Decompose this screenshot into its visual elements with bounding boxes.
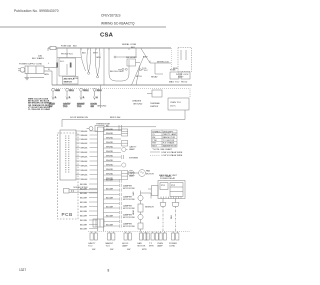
svg-text:BU-WH: BU-WH (106, 216, 114, 218)
thermostat box (95, 126, 104, 132)
svg-text:TTM: TTM (152, 140, 157, 142)
wire loop b (87, 48, 91, 72)
svg-text:SW: SW (91, 106, 94, 108)
svg-text:GRN: GRN (55, 90, 60, 92)
monitor switch cluster (118, 56, 149, 85)
sensor chain (138, 191, 151, 232)
svg-text:SENSOR: SENSOR (145, 207, 154, 209)
svg-text:LINE VOLTAGE WIRE: LINE VOLTAGE WIRE (162, 151, 183, 154)
svg-text:WH-BK: WH-BK (81, 131, 89, 133)
primary interlock switch box (59, 58, 76, 76)
svg-text:GROUND: GROUND (97, 106, 107, 108)
svg-text:WH-BK: WH-BK (81, 135, 89, 137)
svg-text:A: A (96, 96, 98, 99)
svg-text:WH-RD: WH-RD (106, 142, 114, 144)
svg-text:BK-WH: BK-WH (80, 202, 87, 204)
svg-text:BLK: BLK (82, 53, 87, 55)
svg-text:TCO: TCO (88, 246, 93, 248)
heater label (110, 71, 124, 73)
svg-text:GROUND: GROUND (133, 103, 143, 105)
interlock vertical wire (151, 63, 163, 79)
door lock label (180, 50, 182, 60)
svg-text:PCB: PCB (62, 212, 73, 217)
svg-text:BU-WH: BU-WH (106, 207, 114, 209)
arrow labels (97, 100, 143, 108)
bottom dotted line (88, 231, 190, 233)
wire drop 2 (66, 48, 68, 58)
svg-text:WHT: WHT (93, 53, 98, 55)
header rule (0, 26, 166, 28)
lower trunk right wires (104, 179, 122, 227)
svg-text:WH-BK: WH-BK (81, 165, 89, 167)
svg-text:SW: SW (110, 249, 113, 251)
top right boxes (170, 72, 179, 79)
label above bus right (122, 43, 137, 49)
svg-text:WH-RD: WH-RD (106, 164, 114, 166)
bottom right block (148, 181, 185, 199)
svg-text:CAVITY: CAVITY (129, 146, 137, 149)
power cord label (19, 64, 43, 66)
svg-text:BU-WH: BU-WH (106, 189, 114, 191)
svg-text:FUSE 20A: FUSE 20A (61, 44, 71, 47)
svg-text:MOTOR SW: MOTOR SW (123, 188, 135, 190)
svg-text:WH-RD: WH-RD (106, 137, 114, 139)
terminal circles row (52, 88, 96, 99)
svg-text:CHASSIS: CHASSIS (132, 100, 142, 103)
wire wide loop (109, 48, 129, 81)
primary switch labels (61, 54, 74, 56)
svg-text:RD-3: RD-3 (97, 90, 103, 92)
svg-text:WH-BK: WH-BK (81, 174, 89, 176)
wire (30, 77, 44, 79)
svg-text:DAMPER: DAMPER (123, 214, 132, 217)
svg-text:CAVITY LAMP: CAVITY LAMP (163, 133, 177, 136)
svg-text:MGT: MGT (152, 146, 157, 148)
trunk bottom connector (93, 219, 104, 227)
svg-text:MAG. TCO: MAG. TCO (169, 81, 180, 84)
interlock switch diagonal (141, 49, 150, 64)
svg-text:RELAY: RELAY (151, 76, 158, 79)
svg-text:Publication No. 5995543070: Publication No. 5995543070 (14, 9, 59, 13)
wire drop 3 (135, 48, 137, 57)
svg-text:WH-BK: WH-BK (81, 139, 89, 141)
wire line out (44, 67, 57, 69)
wire loop c (95, 48, 100, 76)
svg-text:WH-BK: WH-BK (81, 143, 89, 145)
svg-text:COM: COM (73, 78, 78, 80)
svg-text:WH-RD: WH-RD (106, 151, 114, 153)
svg-text:8: 8 (108, 269, 110, 273)
wire (104, 126, 156, 128)
main horizontal line (52, 84, 192, 86)
svg-text:MOTOR: MOTOR (146, 173, 154, 175)
svg-text:TCO: TCO (106, 246, 111, 248)
interlock dotted boundary (171, 48, 173, 70)
svg-text:BU-WH: BU-WH (106, 198, 114, 200)
svg-text:LOW VOLTAGE WIRE: LOW VOLTAGE WIRE (162, 154, 183, 157)
svg-text:THERMAL: THERMAL (150, 102, 161, 105)
svg-text:HUM: HUM (133, 210, 135, 215)
svg-text:DAMPER: DAMPER (123, 205, 132, 208)
dotted neutral line (52, 88, 190, 90)
svg-text:WH-RD: WH-RD (106, 155, 114, 157)
svg-text:POWER RELAY: POWER RELAY (160, 177, 176, 180)
svg-text:OVEN TCO: OVEN TCO (170, 102, 181, 104)
svg-text:BK-WH: BK-WH (80, 211, 87, 213)
svg-text:RY2: RY2 (171, 185, 176, 187)
svg-text:WH-RD: WH-RD (106, 146, 114, 148)
ground (26, 74, 28, 78)
power cord terminal box (25, 66, 44, 74)
svg-text:MOTOR SW: MOTOR SW (123, 217, 135, 219)
svg-text:BK-WH: BK-WH (80, 206, 87, 208)
svg-text:SW: SW (127, 249, 130, 251)
wire color table (28, 99, 52, 112)
svg-text:DAMPER: DAMPER (123, 196, 132, 199)
connector pin dots (65, 135, 69, 172)
terminal circle (88, 72, 90, 74)
wire down to trunk (100, 85, 102, 108)
svg-text:WIRING SC-KBAACTQ: WIRING SC-KBAACTQ (101, 22, 135, 26)
svg-text:WH-BK: WH-BK (81, 152, 89, 154)
svg-text:WH-BK: WH-BK (81, 161, 89, 163)
contact bar right (70, 63, 72, 68)
svg-text:LAMP: LAMP (129, 148, 135, 151)
wires into trunk (90, 131, 98, 179)
svg-text:FAN: FAN (146, 170, 151, 173)
wires right of trunk upper (104, 129, 122, 180)
svg-text:WH-2: WH-2 (83, 90, 89, 92)
svg-text:BK-WH: BK-WH (80, 224, 87, 226)
svg-text:SWITCH: SWITCH (64, 81, 73, 83)
svg-text:WH-RD: WH-RD (106, 129, 114, 131)
svg-text:BK-WH: BK-WH (80, 184, 87, 186)
svg-text:LAMP: LAMP (157, 245, 163, 248)
svg-text:FAN: FAN (138, 242, 143, 245)
terminal strip labels (88, 242, 177, 251)
svg-text:STIRRER: STIRRER (129, 158, 139, 160)
svg-text:DESCRIPT: DESCRIPT (163, 131, 174, 133)
svg-text:MOTOR: MOTOR (138, 246, 146, 248)
svg-text:SW2: SW2 (143, 57, 148, 59)
contact bar left (56, 63, 58, 68)
svg-text:L: L (48, 63, 50, 65)
connector stub wires (76, 131, 81, 179)
svg-text:BLK: BLK (73, 45, 78, 47)
svg-text:150°C: 150°C (170, 106, 176, 108)
svg-text:BRN 2-WH: BRN 2-WH (110, 117, 121, 119)
svg-text:SYMBOL: SYMBOL (152, 131, 162, 133)
terminal strip groups (90, 232, 179, 241)
PCB component (64, 189, 98, 194)
svg-text:BK-WH: BK-WH (80, 220, 87, 222)
svg-text:SW: SW (92, 249, 95, 251)
svg-text:TCO: TCO (63, 106, 68, 108)
svg-text:SERIAL CONN: SERIAL CONN (122, 43, 137, 46)
ribbon connector box (60, 130, 76, 180)
svg-text:GAS: GAS (132, 191, 135, 196)
secondary switch box (63, 77, 79, 85)
svg-text:WH-RD: WH-RD (106, 169, 114, 171)
svg-text:MAGNT: MAGNT (106, 242, 114, 245)
svg-text:BK-WH: BK-WH (80, 197, 87, 199)
wire drop 1 (56, 48, 58, 85)
svg-text:N.C.: N.C. (144, 70, 149, 72)
svg-text:BK-WH: BK-WH (80, 193, 87, 195)
door lock assy dashed box (178, 48, 192, 72)
right connector blocks (122, 129, 128, 180)
svg-text:BK-WH: BK-WH (80, 228, 87, 230)
motor symbol 2 (139, 170, 146, 177)
svg-text:RY1: RY1 (161, 185, 166, 187)
label above bus left (38, 44, 78, 57)
svg-text:BU-WH: BU-WH (106, 225, 114, 227)
svg-text:MOTOR SW: MOTOR SW (123, 199, 135, 201)
svg-text:WH: WH (171, 215, 173, 219)
svg-text:FAN MOTOR: FAN MOTOR (163, 136, 176, 139)
svg-text:INTLK: INTLK (136, 76, 143, 78)
svg-text:DOOR SENSE SW: DOOR SENSE SW (70, 117, 88, 119)
svg-text:20A: 20A (38, 55, 42, 58)
power cord plug (20, 67, 25, 72)
svg-text:A: A (69, 96, 71, 99)
svg-text:A: A (55, 96, 57, 99)
svg-text:MTR: MTR (149, 246, 154, 248)
svg-text:BU-WH: BU-WH (106, 180, 114, 182)
svg-text:DAMPER: DAMPER (123, 185, 132, 188)
wire stub right (116, 56, 136, 58)
svg-text:TCO: TCO (77, 106, 82, 108)
svg-text:TOD: TOD (142, 68, 147, 70)
svg-text:WH-BK: WH-BK (81, 179, 89, 181)
svg-text:WH-RD: WH-RD (106, 173, 114, 175)
svg-text:WH-BK: WH-BK (81, 156, 89, 158)
wire neutral out (44, 70, 52, 72)
lower trunk left wires (80, 184, 98, 231)
svg-text:CORD: CORD (169, 246, 176, 248)
svg-text:YL YELLOW GY GRAY: YL YELLOW GY GRAY (28, 108, 51, 111)
svg-text:* NOTE: SEE CHART: * NOTE: SEE CHART (152, 148, 173, 151)
wire top bus (48, 47, 171, 49)
svg-text:WH-RD: WH-RD (106, 133, 114, 135)
svg-text:WH-BK: WH-BK (81, 147, 89, 149)
svg-text:INTERLOCK: INTERLOCK (157, 61, 170, 63)
svg-text:WH-BK: WH-BK (81, 170, 89, 172)
connector pins (0, 0, 1, 1)
svg-text:HOOD: HOOD (181, 82, 188, 84)
svg-text:MAGNETRON: MAGNETRON (163, 145, 177, 148)
svg-text:A: A (83, 96, 85, 99)
svg-text:MAIN RELAY UNIT: MAIN RELAY UNIT (159, 174, 178, 177)
svg-text:BK-WH: BK-WH (80, 215, 87, 217)
svg-text:BLK BLU RED: BLK BLU RED (110, 71, 124, 73)
wire loop a (81, 48, 86, 71)
svg-text:PRI SW N.O.: PRI SW N.O. (61, 54, 74, 56)
right mid component (152, 90, 162, 97)
svg-text:FUSE: FUSE (170, 70, 176, 72)
thermostat circle (89, 127, 93, 131)
svg-text:GRN: GRN (44, 74, 49, 76)
plug shapes below block (160, 199, 179, 207)
legend line solid (150, 152, 160, 155)
svg-text:DAMPER: DAMPER (123, 223, 132, 226)
svg-text:HVT: HVT (152, 143, 157, 145)
svg-text:BK-1: BK-1 (69, 90, 74, 92)
dashed drop wires (158, 207, 176, 232)
svg-text:MOTOR SW: MOTOR SW (123, 226, 135, 228)
svg-text:N.O.: N.O. (60, 61, 65, 63)
svg-text:CAVITY: CAVITY (88, 242, 96, 245)
svg-text:MOTOR SW: MOTOR SW (123, 208, 135, 210)
svg-text:BK: BK (158, 216, 160, 219)
svg-text:LAMP: LAMP (122, 245, 128, 248)
motor symbol 1 (128, 170, 138, 176)
svg-text:WH-RD: WH-RD (106, 160, 114, 162)
mid row wire (62, 119, 185, 121)
PCB dashed box (58, 133, 79, 219)
svg-text:CSA: CSA (100, 33, 114, 39)
svg-text:POWER SUPPLY CORD: POWER SUPPLY CORD (19, 64, 43, 66)
harness wire labels left (81, 131, 89, 181)
legend table (152, 130, 178, 147)
svg-text:CFEV1673LS: CFEV1673LS (101, 14, 121, 18)
svg-text:MTR: MTR (142, 249, 147, 251)
switch wire (57, 57, 81, 59)
svg-text:NOISE FILTER: NOISE FILTER (74, 187, 89, 189)
wire drop main (103, 48, 105, 85)
svg-text:BLK: BLK (131, 47, 136, 49)
svg-text:SW LEVER: SW LEVER (126, 57, 137, 59)
svg-text:FM: FM (152, 137, 155, 139)
svg-text:GRN: GRN (96, 57, 101, 59)
svg-text:LIMITER: LIMITER (150, 106, 159, 108)
svg-text:N: N (48, 69, 50, 71)
svg-text:1327: 1327 (19, 268, 26, 272)
svg-text:H.V. TRANS: H.V. TRANS (163, 142, 175, 145)
terminal circle (97, 76, 99, 78)
label mid (60, 61, 78, 80)
trunk harness box (98, 127, 104, 231)
svg-text:T.T. MOTOR: T.T. MOTOR (163, 140, 175, 142)
